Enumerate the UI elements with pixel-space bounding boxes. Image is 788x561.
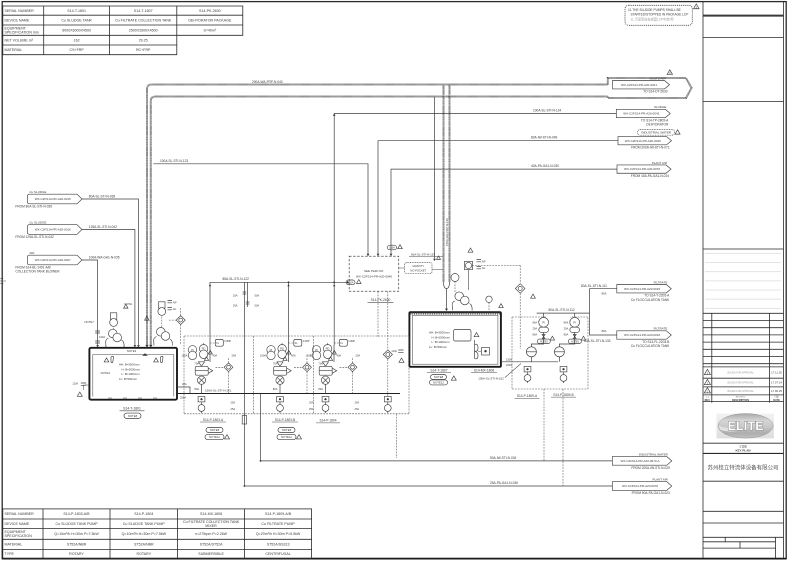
svg-text:40A-PA-GA1-N-030: 40A-PA-GA1-N-030 <box>531 164 559 168</box>
svg-text:120A: 120A <box>391 350 397 353</box>
gravity no-pocket note <box>399 268 443 270</box>
svg-text:苏州枝立特流体设备有限公司: 苏州枝立特流体设备有限公司 <box>708 463 779 471</box>
pump S14-P-1803-B <box>267 346 275 354</box>
svg-text:160A: 160A <box>99 335 105 339</box>
svg-text:80A: 80A <box>564 333 569 337</box>
off-page connector WX-C2FS14-PR-A20-0027 <box>27 255 82 265</box>
svg-text:40A: 40A <box>182 382 187 386</box>
plant air line 25A-PA-GA1-N-036 <box>244 485 612 487</box>
svg-text:S14-P-1809-B: S14-P-1809-B <box>553 393 573 397</box>
svg-text:40A: 40A <box>213 354 218 358</box>
svg-text:PI: PI <box>315 348 318 352</box>
svg-text:LL: B=500mm: LL: B=500mm <box>429 345 448 349</box>
svg-text:25A: 25A <box>231 407 236 411</box>
svg-text:S14-P-1804: S14-P-1804 <box>319 419 336 423</box>
svg-text:29.25: 29.25 <box>139 38 148 42</box>
off-page connector WX-C2FS14-PR-A20-0045 <box>618 137 672 145</box>
svg-text:NOTE11: NOTE11 <box>209 435 220 439</box>
check valve to tank1 vent <box>176 316 185 325</box>
svg-text:25A: 25A <box>309 407 314 411</box>
svg-text:S14-PK-2630: S14-PK-2630 <box>199 9 221 13</box>
tank S14-T-1807 <box>409 312 501 367</box>
tank S14-T-1801 <box>89 348 177 400</box>
svg-text:ELITE: ELITE <box>728 419 764 433</box>
off-page connector WX-C2FS14-PR-A20-0076 <box>612 482 672 491</box>
revision rows <box>704 369 782 402</box>
svg-text:ST52A/NBR: ST52A/NBR <box>134 543 154 547</box>
off-page connector WX-C2FS14-PR-A20-0041 <box>613 81 670 89</box>
svg-text:50A: 50A <box>255 294 260 298</box>
svg-text:50A: 50A <box>255 303 260 307</box>
sludge line 100A-SL-STI-N-124 to dehydrator <box>334 114 616 346</box>
svg-text:100A-SL-STI-N-124: 100A-SL-STI-N-124 <box>533 109 561 113</box>
svg-text:25A: 25A <box>232 354 237 358</box>
svg-text:70A: 70A <box>194 362 199 366</box>
svg-text:TYPE: TYPE <box>5 552 15 556</box>
svg-text:NOTE9: NOTE9 <box>540 341 548 343</box>
svg-text:25A: 25A <box>233 294 238 298</box>
svg-text:FROM 50A-PA-GA1-N-023: FROM 50A-PA-GA1-N-023 <box>632 491 670 495</box>
svg-text:COLLECTION TANK BLOWER: COLLECTION TANK BLOWER <box>15 269 60 273</box>
svg-text:80A-SL-STI-N-112: 80A-SL-STI-N-112 <box>549 308 575 312</box>
svg-text:SPECIFICATION mm: SPECIFICATION mm <box>5 30 39 34</box>
svg-text:Cu FILTRATE PUMP: Cu FILTRATE PUMP <box>261 522 295 526</box>
svg-text:NOTE12: NOTE12 <box>433 380 444 384</box>
flush water column from package <box>378 292 388 397</box>
svg-text:S14-MX-1808: S14-MX-1808 <box>474 368 495 372</box>
svg-text:WX-C2FS14-PR-A20-0045: WX-C2FS14-PR-A20-0045 <box>625 139 661 143</box>
svg-text:160A: 160A <box>260 354 266 358</box>
svg-text:MIXER: MIXER <box>205 524 217 528</box>
svg-text:DEVICE NAME: DEVICE NAME <box>5 522 30 526</box>
svg-text:ISSUED FOR APPROVAL: ISSUED FOR APPROVAL <box>727 390 754 393</box>
svg-text:S14-P-1804: S14-P-1804 <box>134 512 153 516</box>
svg-text:DEVICE NAME: DEVICE NAME <box>5 18 30 22</box>
svg-text:6000X6000X4500: 6000X6000X4500 <box>62 28 91 32</box>
svg-text:4.0MP: 4.0MP <box>224 340 231 343</box>
svg-text:FROM 200A-IW-STI-N-071: FROM 200A-IW-STI-N-071 <box>631 146 670 150</box>
svg-text:n=275rpm P=2.2kW: n=275rpm P=2.2kW <box>195 532 228 536</box>
svg-text:20A: 20A <box>532 327 537 331</box>
svg-text:4.0MP: 4.0MP <box>348 340 355 343</box>
off-page connector WX-C2FS14-PR-A20-0076 <box>617 165 671 173</box>
svg-text:S=40m³: S=40m³ <box>203 28 216 32</box>
air line inline fittings <box>95 331 100 343</box>
svg-text:PI: PI <box>270 348 273 352</box>
key plan row <box>703 442 784 444</box>
svg-text:11.THE SLUDGE PUMPS SHALL BE: 11.THE SLUDGE PUMPS SHALL BE <box>628 8 681 12</box>
160A oval above box <box>388 245 397 250</box>
svg-text:NOTE11: NOTE11 <box>281 435 292 439</box>
svg-text:S14-P-1809-A: S14-P-1809-A <box>517 394 538 398</box>
svg-text:200A-WA-FRP-N-040: 200A-WA-FRP-N-040 <box>252 80 283 84</box>
pump table (bottom-left) <box>3 509 312 559</box>
svg-text:AIP: AIP <box>173 301 177 304</box>
entry arrows into box <box>367 254 370 256</box>
svg-text:NOTE3: NOTE3 <box>101 371 111 375</box>
svg-text:150A-SL-STI-N-121: 150A-SL-STI-N-121 <box>205 389 232 393</box>
svg-text:Cu FLOCCULATION TANK: Cu FLOCCULATION TANK <box>631 344 670 348</box>
svg-text:RC+FRP: RC+FRP <box>136 48 151 52</box>
svg-text:LL: B=500mm: LL: B=500mm <box>119 377 138 381</box>
svg-text:FROM 80A-SL-STI-N-039: FROM 80A-SL-STI-N-039 <box>15 204 52 208</box>
svg-text:25A: 25A <box>355 407 360 411</box>
svg-text:S14-P-1809-A/B: S14-P-1809-A/B <box>265 512 292 516</box>
svg-text:NO POCKET: NO POCKET <box>410 268 426 272</box>
svg-text:S14-T-1807: S14-T-1807 <box>430 368 447 372</box>
off-page connector WX-C2FS14-PR-A20-0016 <box>27 225 82 235</box>
svg-text:PG: PG <box>280 347 284 351</box>
svg-text:4.0MP: 4.0MP <box>303 340 310 343</box>
title block (right) <box>703 2 784 558</box>
tank1 left low-level tag <box>81 383 86 385</box>
svg-text:Cu SLUDGE: Cu SLUDGE <box>29 190 46 194</box>
svg-text:ST52A/ST52A: ST52A/ST52A <box>200 543 224 547</box>
svg-text:125A-SL-STI-N-042: 125A-SL-STI-N-042 <box>89 225 117 229</box>
svg-text:80A-SL-STI-N-133: 80A-SL-STI-N-133 <box>584 339 611 343</box>
svg-text:NOTE3: NOTE3 <box>127 349 137 353</box>
svg-text:CS+FRP: CS+FRP <box>70 48 85 52</box>
svg-text:25A: 25A <box>355 401 360 405</box>
svg-text:NOTE7: NOTE7 <box>85 320 95 324</box>
filtrate discharge header 80A-SL-STI-N-112 <box>537 289 617 335</box>
svg-text:FROM 125A-SL-STI-N-042: FROM 125A-SL-STI-N-042 <box>15 235 54 239</box>
svg-text:WX-C2FS14-PR-A20-0027: WX-C2FS14-PR-A20-0027 <box>35 258 71 262</box>
svg-text:160A: 160A <box>389 247 395 250</box>
svg-text:NOTE8: NOTE8 <box>434 375 444 379</box>
svg-text:FILTRATE: FILTRATE <box>654 280 668 284</box>
svg-text:H: B=2500mm: H: B=2500mm <box>432 335 451 339</box>
svg-text:WX-C2FS14-PR-A20-0041: WX-C2FS14-PR-A20-0041 <box>621 83 657 87</box>
svg-text:160A: 160A <box>348 281 354 284</box>
svg-text:ROTARY: ROTARY <box>69 552 84 556</box>
svg-text:80A: 80A <box>532 333 537 337</box>
svg-text:FROM 40A-PA-GA1-N-024: FROM 40A-PA-GA1-N-024 <box>631 174 669 178</box>
svg-text:80A: 80A <box>194 387 199 391</box>
svg-text:85A-SL-STI-N-122: 85A-SL-STI-N-122 <box>223 277 250 281</box>
svg-text:KEY PLAN: KEY PLAN <box>735 449 750 453</box>
dehydrator package box S14-PK-2630 <box>349 256 399 291</box>
svg-text:WX-C2FS14-PR-A20-0016: WX-C2FS14-PR-A20-0016 <box>624 333 660 337</box>
svg-text:S14-T-1807: S14-T-1807 <box>134 9 153 13</box>
svg-text:25A: 25A <box>233 303 238 307</box>
svg-text:80A: 80A <box>318 387 323 391</box>
svg-text:L: B=1000mm: L: B=1000mm <box>432 340 451 344</box>
svg-text:80A: 80A <box>564 321 569 325</box>
svg-text:WX-C2FS14-PR-A20-0073-A: WX-C2FS14-PR-A20-0073-A <box>621 459 660 463</box>
svg-text:SLUDGE: SLUDGE <box>654 105 666 109</box>
svg-text:50A-IW-STI-N-034: 50A-IW-STI-N-034 <box>490 456 517 460</box>
off-page connector WX-C2FS14-PR-A20-0042 <box>616 109 670 117</box>
svg-text:25A-PA-GA1-N-036: 25A-PA-GA1-N-036 <box>490 481 518 485</box>
svg-text:WX-C2FS14-PR-A20-0016: WX-C2FS14-PR-A20-0016 <box>35 228 71 232</box>
svg-text:WX-C2FS14-PR-A20-0076: WX-C2FS14-PR-A20-0076 <box>624 167 660 171</box>
svg-text:80A-SL-STI-N-111: 80A-SL-STI-N-111 <box>581 284 607 288</box>
svg-text:SEE P&ID NO.: SEE P&ID NO. <box>364 269 384 273</box>
svg-text:17.11.30: 17.11.30 <box>771 371 782 375</box>
svg-text:INDUSTRIAL WATER: INDUSTRIAL WATER <box>641 131 672 135</box>
line 125A-SL-STI-N-042 <box>82 230 135 346</box>
svg-text:FILTRATE: FILTRATE <box>654 327 668 331</box>
svg-text:INDUSTRIAL WATER: INDUSTRIAL WATER <box>639 452 669 456</box>
svg-text:NOTE9: NOTE9 <box>571 341 579 343</box>
svg-text:CENTRIFUGAL: CENTRIFUGAL <box>265 552 290 556</box>
svg-text:100A-WA-GA1-N-035: 100A-WA-GA1-N-035 <box>89 255 120 259</box>
svg-text:NOTE8: NOTE8 <box>128 414 138 418</box>
svg-text:Cu SLUDGE TANK PUMP: Cu SLUDGE TANK PUMP <box>123 522 166 526</box>
svg-text:S14-MX-1808: S14-MX-1808 <box>200 512 222 516</box>
svg-text:80A: 80A <box>602 329 607 333</box>
svg-text:Cu SLUDGE TANK PUMP: Cu SLUDGE TANK PUMP <box>55 522 98 526</box>
off-page connector WX-C2FS14-PR-A20-0015 <box>27 194 82 204</box>
svg-text:WASTE AIR: WASTE AIR <box>649 76 666 80</box>
suction line 100A-SL-STI-N-152 <box>501 361 558 363</box>
svg-text:100A-SL-STI-N-152: 100A-SL-STI-N-152 <box>478 376 504 380</box>
svg-text:Cu SLUDGE TANK: Cu SLUDGE TANK <box>61 18 92 22</box>
svg-text:NET VOLUME m³: NET VOLUME m³ <box>5 38 34 42</box>
svg-text:STARTED/STOPPED IN PACKAGE LCP: STARTED/STOPPED IN PACKAGE LCP <box>631 12 689 16</box>
svg-text:WX-C2FS14-PR-A20-0042: WX-C2FS14-PR-A20-0042 <box>623 112 659 116</box>
line 80A-SL-STI-N-039 <box>82 199 138 345</box>
svg-text:Q=10m³/h H=30m P=7.5kW: Q=10m³/h H=30m P=7.5kW <box>54 532 99 536</box>
svg-text:ISSUED FOR APPROVAL: ISSUED FOR APPROVAL <box>727 372 754 375</box>
discharge header 85A-SL-STI-N-122 <box>210 282 349 345</box>
svg-text:HH: B=3000mm: HH: B=3000mm <box>429 331 450 335</box>
svg-text:80A-IW-STI-N-049: 80A-IW-STI-N-049 <box>531 136 558 140</box>
svg-text:25A: 25A <box>356 354 361 358</box>
valve on plant air riser <box>242 416 246 425</box>
svg-text:SPECIFICATION: SPECIFICATION <box>5 534 33 538</box>
dashed enclosure pumps 1809 <box>512 317 588 389</box>
svg-text:60A-SL-STI-N-153: 60A-SL-STI-N-153 <box>411 252 435 256</box>
waste air hatched envelope line 200A-WA-FRP-N-040 <box>147 85 608 346</box>
svg-text:Cu FLOCCULATION TANK: Cu FLOCCULATION TANK <box>631 298 670 302</box>
pump S14-P-1804 <box>312 346 320 354</box>
tank2 left tag <box>398 350 403 352</box>
svg-text:WX-C2FS14-PR-A20-0015: WX-C2FS14-PR-A20-0015 <box>35 197 71 201</box>
svg-text:80A-SL-STI-N-039: 80A-SL-STI-N-039 <box>89 194 116 198</box>
svg-text:162: 162 <box>74 38 80 42</box>
svg-text:150A-WA-FRP-N-139: 150A-WA-FRP-N-139 <box>445 218 449 246</box>
svg-text:SERIAL NUMBER: SERIAL NUMBER <box>5 9 35 13</box>
svg-text:S14-P-1803-B: S14-P-1803-B <box>275 418 295 422</box>
svg-text:17.07.14: 17.07.14 <box>771 381 782 385</box>
svg-text:PI: PI <box>542 320 545 324</box>
strainer line to pump suction <box>519 265 521 283</box>
industrial water line 80A-IW-STI-N-049 <box>378 141 618 257</box>
svg-text:GRAVITY: GRAVITY <box>412 264 424 268</box>
svg-text:TO S14-DT-2630: TO S14-DT-2630 <box>643 90 667 94</box>
svg-text:2500X2600X4500: 2500X2600X4500 <box>129 28 158 32</box>
svg-text:DESCRIPTION: DESCRIPTION <box>732 399 749 402</box>
svg-text:AIR: AIR <box>29 251 35 255</box>
svg-text:80A: 80A <box>273 387 278 391</box>
svg-text:40A: 40A <box>291 354 296 358</box>
svg-text:250A: 250A <box>180 395 186 399</box>
svg-text:SUBMERSIBLE: SUBMERSIBLE <box>198 552 224 556</box>
svg-text:S14-T-1801: S14-T-1801 <box>123 407 141 411</box>
svg-text:70A: 70A <box>273 362 278 366</box>
level instruments LIT on tank1 <box>113 319 115 329</box>
svg-text:MATERIAL: MATERIAL <box>5 543 23 547</box>
svg-text:80A: 80A <box>532 321 537 325</box>
equipment table (top-left) <box>3 6 243 55</box>
svg-text:Cu FILTRATE COLLECTION TANK: Cu FILTRATE COLLECTION TANK <box>115 18 172 22</box>
plant air line 40A-PA-GA1-N-030 <box>391 169 617 256</box>
svg-text:ROTARY: ROTARY <box>136 552 151 556</box>
svg-text:PG: PG <box>326 347 330 351</box>
svg-text:PI: PI <box>191 348 194 352</box>
pump S14-P-1803-A <box>188 346 196 354</box>
svg-text:25A: 25A <box>309 401 314 405</box>
svg-text:DEHYDRATOR PACKAGE: DEHYDRATOR PACKAGE <box>188 18 232 22</box>
svg-text:S14-T-1801: S14-T-1801 <box>67 9 86 13</box>
svg-text:ST52A/SS313: ST52A/SS313 <box>267 543 290 547</box>
svg-text:PG: PG <box>202 347 206 351</box>
dashed instrument line to strainer riser <box>472 264 520 266</box>
svg-text:MATERIAL: MATERIAL <box>5 48 23 52</box>
svg-text:70A: 70A <box>318 362 323 366</box>
off-page connector WX-C2FS14-PR-A20-0015 <box>617 285 672 293</box>
svg-text:NOTE8: NOTE8 <box>282 428 292 432</box>
svg-text:DEHYDRATOR: DEHYDRATOR <box>646 123 669 127</box>
svg-text:S14-P-1803-A/B: S14-P-1803-A/B <box>63 512 90 516</box>
svg-text:11.污泥泵应在成套LCP中启/停: 11.污泥泵应在成套LCP中启/停 <box>631 16 675 21</box>
svg-text:SERIAL NUMBER: SERIAL NUMBER <box>5 512 35 516</box>
svg-text:NOTE8: NOTE8 <box>210 428 220 432</box>
off-page connector WX-C2FS14-PR-A20-0016 <box>617 331 672 339</box>
svg-text:Cu SLUDGE: Cu SLUDGE <box>29 220 46 224</box>
svg-text:40A: 40A <box>337 354 342 358</box>
svg-text:WX-C2FS14-PR-A20-0046: WX-C2FS14-PR-A20-0046 <box>356 275 392 279</box>
svg-text:120A: 120A <box>72 383 78 386</box>
svg-text:Q=20m³/h H=30m P=5.5kW: Q=20m³/h H=30m P=5.5kW <box>256 532 301 536</box>
svg-text:160A: 160A <box>305 354 311 358</box>
svg-text:ST52A/NBR: ST52A/NBR <box>67 543 87 547</box>
line 100A-WA-GA1-N-035 <box>82 260 98 345</box>
svg-text:Q=10m³/h H=30m P=7.5kW: Q=10m³/h H=30m P=7.5kW <box>122 532 167 536</box>
svg-text:L: B=1000mm: L: B=1000mm <box>122 372 141 376</box>
utility drops from 1809 pumps <box>544 389 563 486</box>
pump S14-P-1809-B <box>558 357 560 362</box>
sludge feed line 100A-SL-STI-N-123 <box>153 164 368 256</box>
industrial water line 50A-IW-STI-N-034 <box>261 394 613 461</box>
svg-text:S14-P-1803-A: S14-P-1803-A <box>203 418 224 422</box>
svg-text:20A: 20A <box>564 327 569 331</box>
svg-text:PI: PI <box>573 320 576 324</box>
svg-text:PLANT AIR: PLANT AIR <box>652 161 668 165</box>
pump S14-P-1809-A <box>530 357 532 362</box>
svg-text:PLANT AIR: PLANT AIR <box>653 478 669 482</box>
svg-text:HH: B=3500mm: HH: B=3500mm <box>119 363 140 367</box>
off-page connector WX-C2FS14-PR-A20-0073-A <box>612 457 672 466</box>
waste air riser to tank2 150A-WA-FRP-N-139 <box>444 85 450 282</box>
svg-text:200A: 200A <box>506 363 512 367</box>
dashed enclosure pumps 1803/1804 <box>184 336 409 458</box>
svg-text:160A: 160A <box>181 354 187 358</box>
svg-text:ISSUED FOR APPROVAL: ISSUED FOR APPROVAL <box>727 382 754 385</box>
svg-text:100A-SL-STI-N-123: 100A-SL-STI-N-123 <box>160 159 188 163</box>
svg-text:REV.: REV. <box>705 399 711 402</box>
svg-text:DATE: DATE <box>773 399 780 402</box>
svg-text:H: B=3000mm: H: B=3000mm <box>122 367 141 371</box>
svg-text:17.06.25: 17.06.25 <box>771 389 782 393</box>
svg-text:WX-C2FS14-PR-A20-0076: WX-C2FS14-PR-A20-0076 <box>622 484 658 488</box>
tank2 top instruments <box>468 268 470 290</box>
utility risers with size labels <box>243 282 245 486</box>
mixer S14-MX-1808 <box>475 344 479 359</box>
note box (top) <box>625 5 692 25</box>
line from waste air area down to gravity box <box>434 97 436 259</box>
svg-text:WX-C2FS14-PR-A20-0015: WX-C2FS14-PR-A20-0015 <box>624 287 660 291</box>
svg-text:AIP: AIP <box>482 260 486 263</box>
svg-text:FROM 200A-IW-STI-N-029: FROM 200A-IW-STI-N-029 <box>631 466 670 470</box>
svg-text:25A: 25A <box>231 401 236 405</box>
svg-text:80A: 80A <box>602 292 607 296</box>
suction header 150A-SL-STI-N-121 <box>177 393 400 395</box>
svg-text:150A: 150A <box>506 357 512 361</box>
